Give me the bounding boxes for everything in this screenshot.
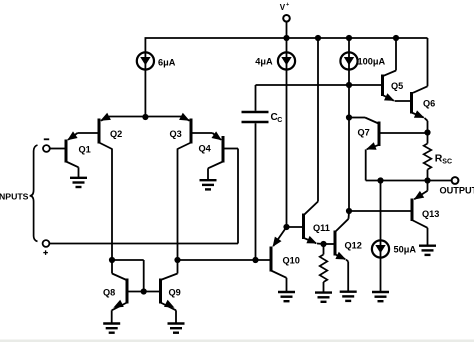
wire tail diag Q2: [101, 117, 109, 121]
transistor Q1 (PNP input follower): [65, 140, 68, 163]
current source 50uA: [372, 240, 389, 257]
wire Q3 collector down: [177, 149, 179, 261]
current source 6uA: [137, 52, 154, 69]
ground Q12 base resistor: [315, 293, 332, 302]
ground Q1 collector: [70, 178, 87, 187]
svg-text:6μA: 6μA: [158, 58, 176, 68]
transistor Q12 (NPN): [334, 231, 337, 256]
wire tail to Q2 emitter: [109, 116, 145, 118]
junction Cc / Q10 base: [252, 257, 258, 263]
wire output line: [366, 180, 452, 182]
junction Rsc / output: [424, 177, 430, 183]
svg-text:SC: SC: [442, 158, 452, 165]
decorative: [0, 340, 474, 342]
terminal non-inverting input: [43, 240, 50, 247]
junction Q2 collector / Q8: [109, 257, 115, 263]
wire Q6 collector diag: [413, 86, 428, 93]
transistor Q9 (NPN mirror): [159, 279, 162, 304]
input brace: [30, 145, 38, 241]
terminal inverting input: [43, 145, 50, 152]
svg-text:4μA: 4μA: [255, 57, 273, 67]
svg-text:Q5: Q5: [391, 81, 403, 91]
svg-text:Q6: Q6: [423, 99, 435, 109]
transistor Q10 (PNP second stage): [270, 247, 273, 272]
junction 100uA / Cc / Q5 base: [346, 82, 352, 88]
wire down to mirror bases: [143, 260, 145, 292]
transistor Q11 (NPN): [302, 214, 305, 240]
wire tail diag Q3: [182, 117, 190, 121]
svg-text:OUTPUT: OUTPUT: [440, 186, 474, 196]
wire rail corner to Q6 collector: [427, 38, 429, 86]
junction Q11 emitter / Q12 base / resistor: [320, 241, 326, 247]
current source 4uA: [278, 52, 295, 69]
svg-text:Q3: Q3: [170, 129, 182, 139]
svg-text:Q10: Q10: [283, 256, 300, 266]
svg-text:C: C: [277, 117, 282, 124]
wire 50uA column: [380, 181, 382, 292]
svg-text:100μA: 100μA: [358, 57, 386, 67]
junction Q6 emitter / Rsc / Q7 base: [424, 129, 430, 135]
svg-text:Q13: Q13: [422, 209, 439, 219]
transistor Q7 (NPN, mirrored): [378, 122, 381, 147]
junction 4uA / Q10 emitter / Q11 base: [283, 224, 289, 230]
junction rail/V+: [283, 35, 289, 41]
current source 100uA: [340, 52, 357, 69]
transistor Q5 (NPN): [381, 75, 384, 97]
svg-text:50μA: 50μA: [394, 245, 417, 255]
ground 50uA: [372, 292, 389, 301]
transistor Q2 (PNP): [98, 119, 101, 144]
resistor R (Q12 base): [323, 244, 325, 255]
svg-text:V: V: [280, 3, 286, 12]
junction rail/x318: [315, 35, 321, 41]
wire V+ terminal to rail: [286, 21, 288, 38]
wire mirror input: [112, 259, 144, 261]
svg-text:Q9: Q9: [169, 288, 181, 298]
wire V+ rail: [145, 37, 428, 39]
svg-text:Q2: Q2: [110, 129, 122, 139]
ground Q12 emitter: [340, 292, 357, 301]
svg-text:Q11: Q11: [313, 223, 330, 233]
ground Q8 emitter: [103, 324, 120, 333]
plus sign: [43, 252, 48, 254]
capacitor Cc: [255, 85, 257, 111]
ground Q10 collector: [278, 292, 295, 301]
transistor Q8 (NPN mirror): [126, 279, 129, 304]
terminal OUTPUT: [452, 177, 459, 184]
svg-text:Q12: Q12: [345, 241, 362, 251]
svg-text:INPUTS: INPUTS: [0, 191, 29, 201]
wire rail to 100uA node: [348, 38, 350, 85]
ground Q4 collector: [200, 180, 217, 189]
resistor Rsc: [427, 134, 429, 144]
junction Q12 collector / Q13 base: [346, 208, 352, 214]
junction Q3 collector / Q9: [174, 257, 180, 263]
wire non-inverting input: [50, 243, 238, 245]
wire Q2 collector down: [111, 149, 113, 261]
junction Q8/Q9 bases: [141, 288, 147, 294]
terminal V+: [283, 15, 290, 22]
junction tail node: [142, 114, 148, 120]
svg-text:Q8: Q8: [103, 288, 115, 298]
transistor Q3 (PNP): [190, 119, 193, 144]
wire tail to Q3 emitter: [145, 116, 181, 118]
svg-text:Q1: Q1: [79, 145, 91, 155]
svg-text:Q7: Q7: [358, 128, 370, 138]
junction 50uA tap: [377, 177, 383, 183]
junction rail/Q5 collector: [393, 35, 399, 41]
wire Q5 collector diag: [384, 71, 397, 76]
junction rail/100uA: [346, 35, 352, 41]
wire rail to diff-pair tail: [144, 38, 146, 117]
junction Q7 collector: [346, 114, 352, 120]
ground Q9 emitter: [168, 324, 185, 333]
wire 4uA column: [286, 38, 288, 227]
wire diff output to Q10 base: [178, 259, 272, 261]
wire rail to Q5 collector: [395, 38, 397, 71]
wire rail to Q11 collector: [317, 38, 319, 202]
wire Cc to Q5 base: [256, 84, 383, 86]
transistor Q4 (PNP input follower): [222, 136, 225, 163]
minus sign: [44, 138, 49, 140]
svg-text:Q4: Q4: [199, 144, 212, 154]
wire 100uA node down: [348, 85, 350, 211]
wire Q4 base down: [237, 149, 239, 244]
transistor Q13 (PNP output sink): [411, 199, 414, 222]
wire Q11 collector diag: [304, 202, 318, 215]
transistor Q6 (NPN): [410, 92, 413, 114]
ground Q13 collector: [419, 246, 436, 255]
